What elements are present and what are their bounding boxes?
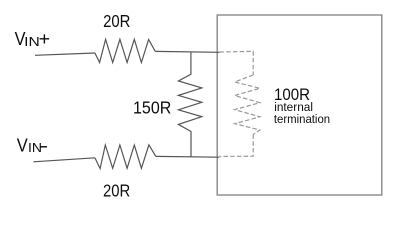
wire VIN- lead	[33, 158, 95, 162]
svg-text:V: V	[17, 135, 28, 155]
svg-text:20R: 20R	[103, 11, 130, 31]
svg-text:termination: termination	[274, 112, 330, 126]
resistor R1 20R (top)	[95, 39, 155, 62]
label VIN+	[15, 29, 51, 49]
resistor R2 20R (bottom)	[95, 145, 156, 169]
svg-text:150R: 150R	[133, 98, 171, 118]
wire VIN+ lead	[35, 53, 95, 55]
dashed wire bottom (internal)	[219, 135, 253, 157]
svg-text:-: -	[39, 135, 48, 155]
resistor R4 100R internal termination (dashed)	[235, 75, 260, 135]
wire bottom to box	[156, 155, 220, 158]
svg-text:IN: IN	[24, 35, 40, 49]
label VIN-	[17, 135, 48, 155]
chip outline box	[217, 15, 382, 195]
dashed wire top (internal)	[220, 51, 254, 75]
wire top to box	[155, 50, 219, 53]
svg-text:20R: 20R	[103, 180, 130, 200]
resistor R3 150R (vertical) with leads	[178, 52, 201, 157]
svg-text:+: +	[39, 29, 51, 49]
